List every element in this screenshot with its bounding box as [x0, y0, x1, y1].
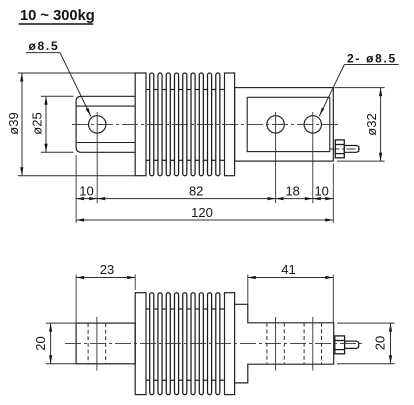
bellows right collar — [225, 73, 235, 176]
hole left dia8.5 — [89, 116, 106, 133]
dimension dia32 — [335, 88, 385, 162]
node hole-right-2 centerline — [312, 112, 314, 203]
bellows left collar bottom view — [135, 293, 146, 395]
bellows right collar bottom view — [225, 293, 235, 395]
dimension row 10-82-18-10 — [76, 183, 333, 200]
main centerline bottom view — [65, 343, 362, 345]
left shaft bar — [76, 323, 135, 364]
left mounting block — [76, 96, 136, 152]
cable gland nut top view — [335, 140, 344, 158]
wire dia39 lower projection line — [18, 175, 135, 177]
svg-text:20: 20 — [372, 336, 387, 350]
bellows convolutions top view — [150, 73, 220, 176]
right mounting block inner plate — [247, 97, 330, 151]
title capacity label — [19, 8, 95, 24]
bellows valley folds bottom view upper — [146, 308, 225, 310]
svg-text:41: 41 — [281, 262, 295, 277]
extension line right block edge — [332, 164, 334, 224]
svg-text:20: 20 — [33, 336, 48, 350]
dimension 20 left — [33, 323, 79, 364]
bellows valley folds top view upper — [146, 89, 225, 91]
svg-text:10: 10 — [79, 183, 93, 198]
node hole centre tick left bar — [96, 317, 98, 371]
svg-text:23: 23 — [100, 262, 114, 277]
cable gland nut bottom view — [335, 336, 345, 354]
svg-text:ø8.5: ø8.5 — [29, 39, 60, 53]
hole right-2 dia8.5 — [304, 116, 321, 133]
bellows valley folds top view lower — [146, 159, 225, 161]
dimension dia25 — [30, 96, 74, 152]
svg-text:2- ø8.5: 2- ø8.5 — [347, 52, 397, 66]
dimension 23 — [76, 262, 135, 323]
svg-text:ø32: ø32 — [364, 113, 379, 135]
svg-text:ø25: ø25 — [30, 112, 45, 134]
gland centerline top view — [331, 148, 363, 150]
bellows left collar — [135, 73, 146, 176]
label 2x hole dia 8.5 right — [319, 52, 399, 117]
cable gland stem top view — [344, 146, 359, 153]
right shaft stepped bar — [235, 304, 334, 383]
bellows convolutions bottom view — [150, 293, 220, 395]
bellows valley folds bottom view lower — [146, 379, 225, 381]
label hole dia 8.5 left — [26, 39, 91, 117]
node hole centre ticks right bar — [275, 317, 277, 371]
hidden hole edges right bar — [267, 323, 322, 364]
svg-text:10: 10 — [314, 183, 328, 198]
dimension dia39 — [6, 73, 23, 176]
svg-text:ø39: ø39 — [6, 112, 21, 134]
hidden hole edges left bar — [87, 323, 89, 364]
svg-text:18: 18 — [285, 183, 299, 198]
dimension 120 — [76, 205, 333, 222]
extension line left block face — [75, 155, 77, 223]
dimension 41 — [248, 262, 333, 323]
right mounting block outer — [235, 88, 334, 162]
cable gland stem bottom view — [345, 341, 359, 348]
node hole-left centerline — [96, 112, 98, 203]
svg-text:10 ~ 300kg: 10 ~ 300kg — [20, 8, 95, 24]
dimension 20 right — [337, 323, 395, 364]
wire dia39 upper projection line — [18, 72, 135, 74]
main centerline top view — [72, 123, 340, 125]
svg-text:82: 82 — [189, 183, 203, 198]
svg-text:120: 120 — [191, 205, 213, 220]
node hole-right-1 centerline — [275, 112, 277, 203]
hole right-1 dia8.5 — [267, 116, 284, 133]
